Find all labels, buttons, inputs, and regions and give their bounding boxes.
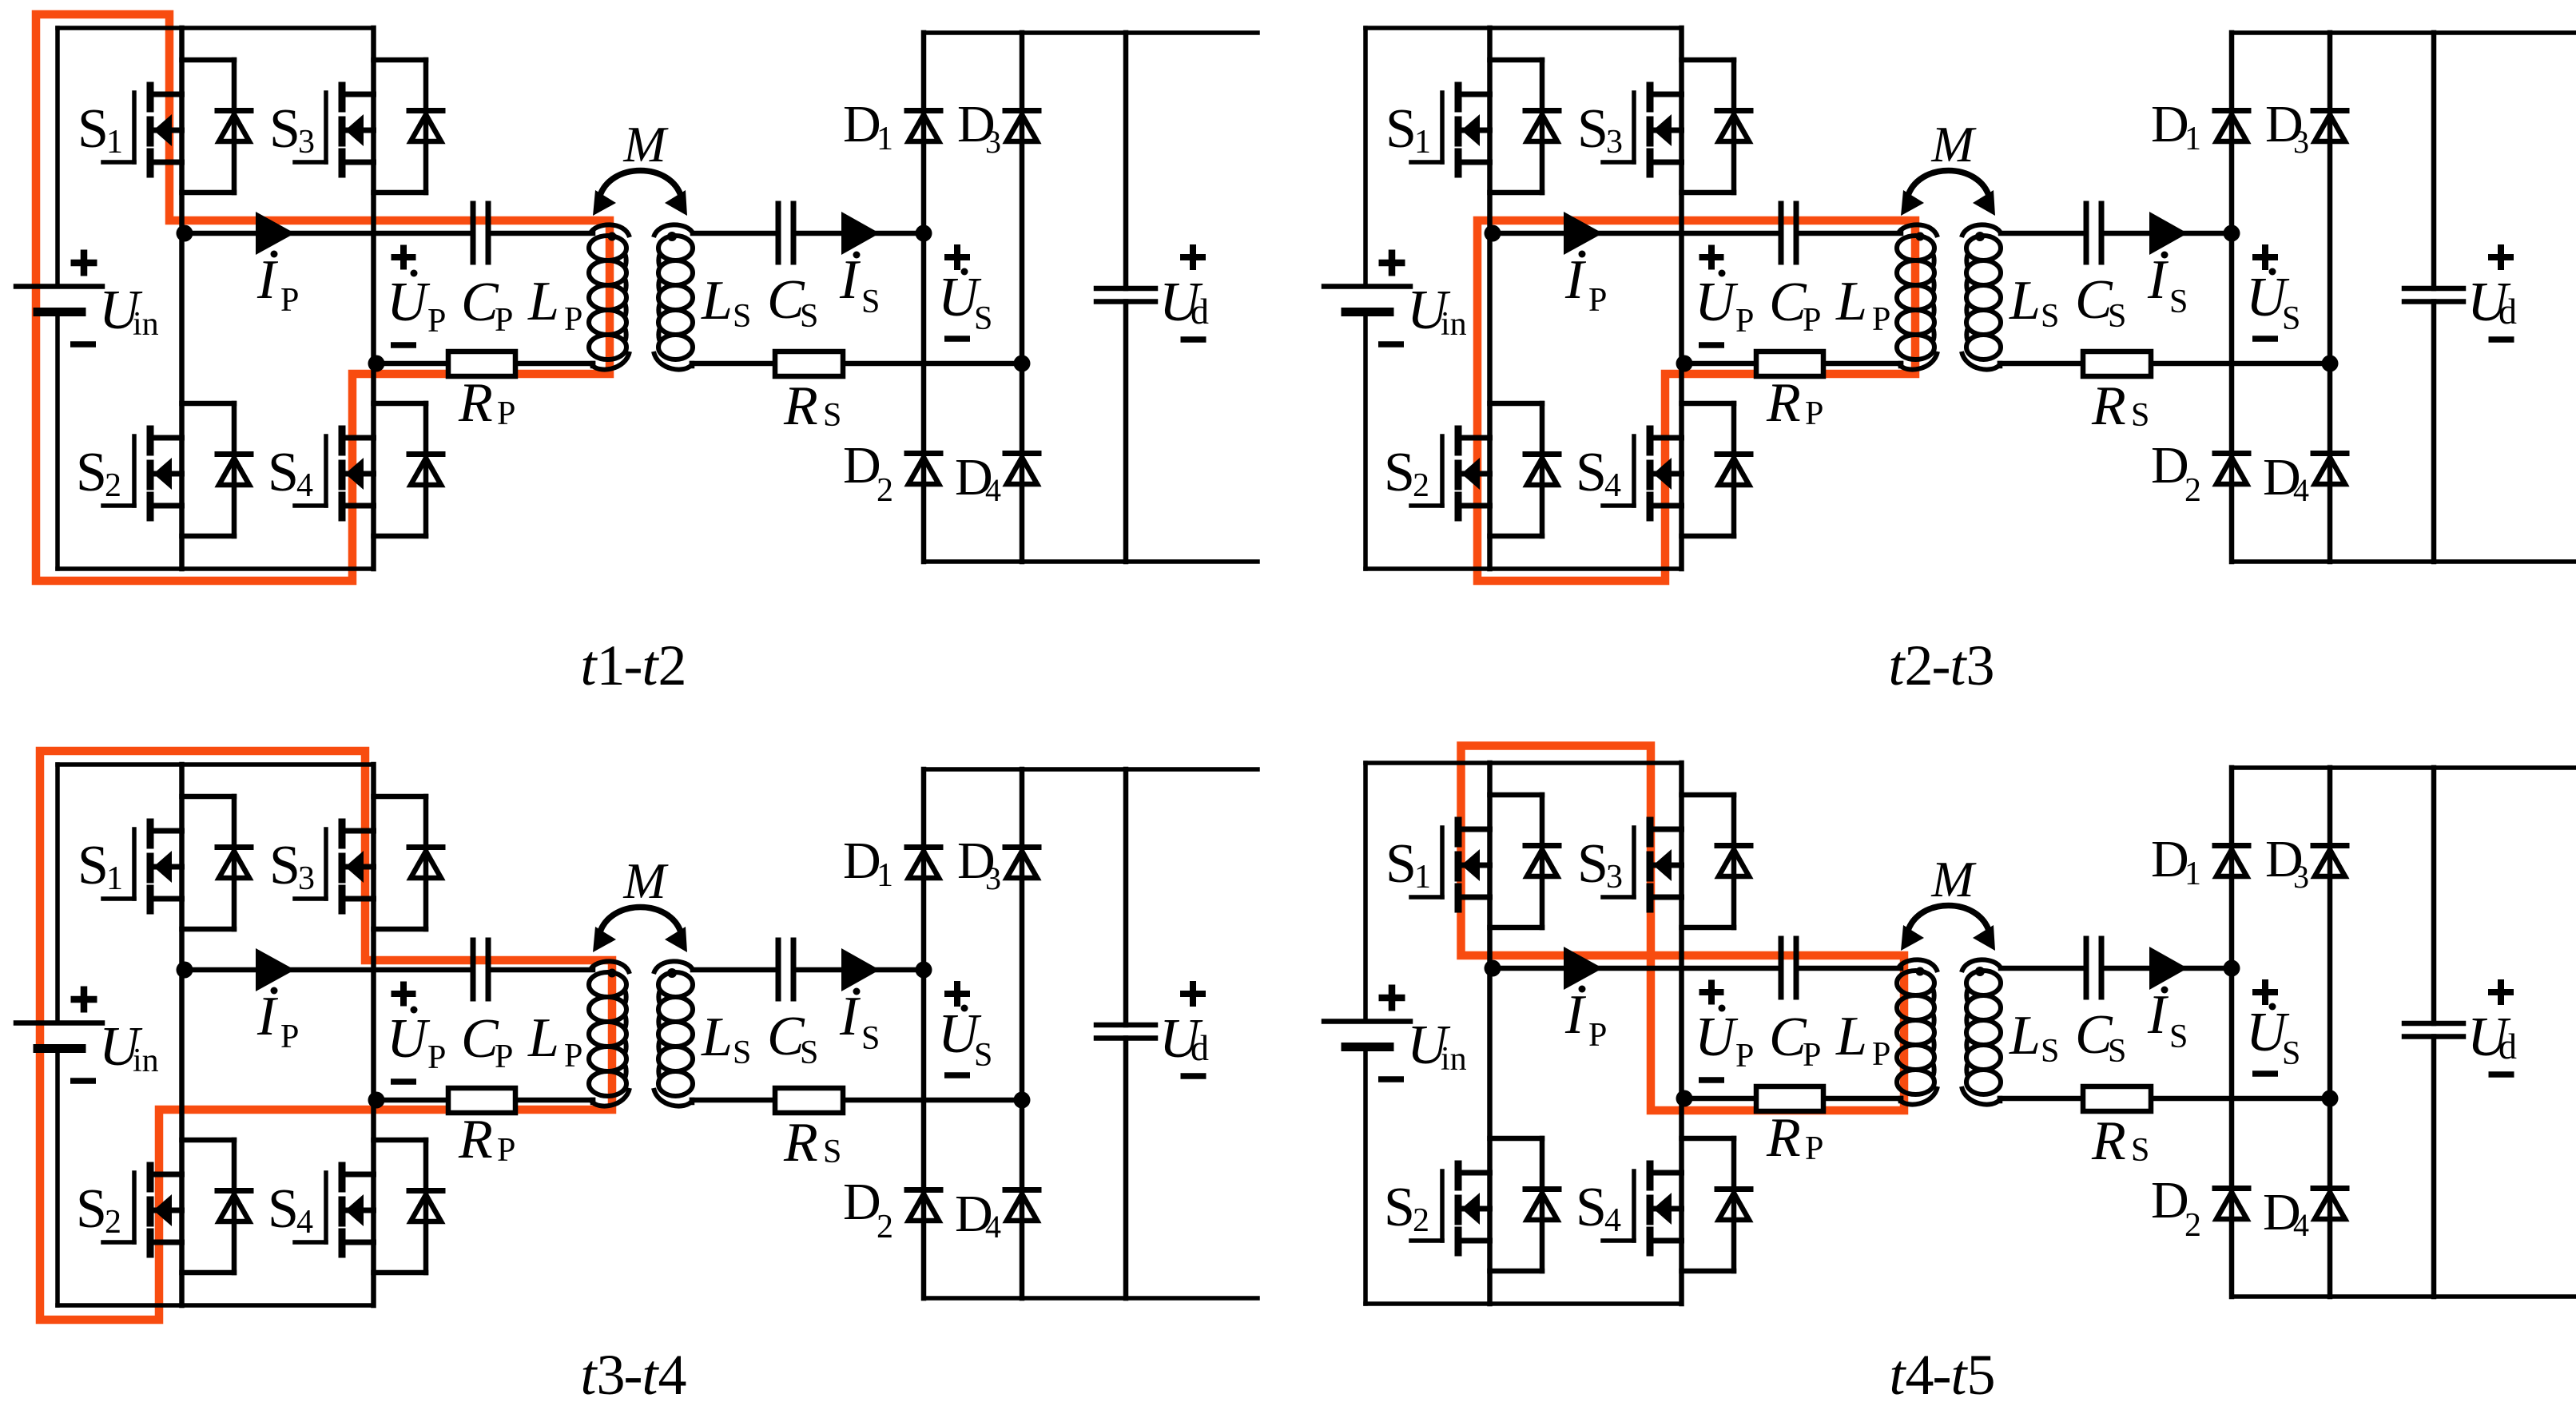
transistor S4 — [1603, 1164, 1682, 1253]
diode D3 — [1005, 848, 1039, 879]
body diode of S2 — [182, 403, 252, 536]
inductor Ls (secondary coil) — [654, 961, 693, 1106]
coupling arrow M — [593, 171, 687, 216]
wire right bridge leg (S3/S4) — [1679, 763, 1684, 1304]
wire Ls to Cs — [693, 231, 778, 236]
label Us — [938, 1003, 992, 1074]
capacitor Ud (output filter) — [2404, 1023, 2463, 1037]
svg-text:t: t — [1889, 634, 1906, 697]
label + of Us — [944, 244, 970, 270]
capacitor Cp — [473, 940, 488, 999]
label − of Ud — [1181, 1073, 1207, 1079]
wire Rs to rectifier leg — [843, 1098, 1022, 1103]
wire current-path highlight (orange loop) — [1461, 746, 1905, 1111]
label Uin — [99, 1016, 159, 1079]
label Up — [1695, 270, 1754, 340]
svg-text:3: 3 — [2293, 124, 2309, 160]
label − of Uin — [1378, 341, 1404, 348]
svg-text:2: 2 — [1905, 634, 1934, 697]
svg-text:I: I — [1564, 984, 1587, 1046]
capacitor Ud (output filter) — [1096, 288, 1155, 302]
label S2 — [76, 442, 121, 504]
label Rs — [783, 1112, 841, 1174]
svg-text:4: 4 — [296, 467, 313, 504]
wire rectifier bottom rail — [924, 1296, 1258, 1301]
label Rp — [458, 372, 515, 434]
svg-text:D: D — [2151, 1171, 2189, 1229]
diode D3 — [1005, 111, 1039, 142]
svg-text:P: P — [1735, 1038, 1754, 1074]
label − of Us — [2252, 336, 2278, 342]
svg-text:P: P — [1588, 1017, 1607, 1054]
svg-text:1: 1 — [106, 124, 123, 161]
polarity dot of Ls — [1975, 232, 1985, 241]
wire Rp to Lp bottom — [515, 1100, 593, 1102]
svg-text:P: P — [564, 301, 582, 338]
label + of Up — [392, 982, 416, 1007]
svg-text:2: 2 — [658, 634, 687, 697]
label t2-t3 — [1889, 634, 1995, 697]
wire bottom rail of inverter — [1366, 566, 1682, 571]
label Ip — [1564, 984, 1607, 1054]
capacitor Cs — [2086, 939, 2101, 997]
svg-text:R: R — [783, 375, 818, 437]
wire Ls to Cs — [2001, 966, 2086, 971]
label + of Up — [1699, 245, 1724, 270]
wire rectifier left leg (D1/D2) — [2229, 768, 2235, 1297]
svg-text:P: P — [564, 1038, 582, 1074]
svg-text:4: 4 — [296, 1204, 313, 1241]
svg-text:I: I — [256, 986, 279, 1047]
label Is — [2147, 984, 2188, 1055]
svg-text:S: S — [1577, 833, 1608, 895]
body diode of S4 — [374, 1140, 443, 1273]
label − of Ud — [2489, 1071, 2514, 1078]
label D3 — [2265, 95, 2309, 160]
node secondary bottom (rectifier input −) dot — [2322, 355, 2339, 372]
node b (S3-S4 junction) dot — [368, 1092, 385, 1109]
svg-text:S: S — [268, 442, 299, 503]
svg-text:S: S — [268, 1178, 299, 1240]
label + of Up — [392, 245, 416, 270]
wire capacitor leg lower — [1123, 1039, 1129, 1299]
wire current-path highlight (orange loop) — [40, 751, 612, 1320]
wire node a to Cp — [182, 231, 474, 236]
wire rectifier bottom rail — [2232, 1294, 2576, 1299]
wire rectifier right leg (D3/D4) — [2328, 33, 2333, 562]
svg-text:4: 4 — [1906, 1343, 1934, 1407]
resistor Rs — [2083, 1086, 2151, 1111]
svg-text:1: 1 — [1414, 859, 1431, 896]
node secondary top (rectifier input +) dot — [916, 962, 932, 979]
label − of Up — [1699, 342, 1724, 348]
inductor Ls (secondary coil) — [654, 224, 693, 369]
svg-text:I: I — [256, 249, 279, 311]
label M — [1930, 851, 1977, 908]
label + of Us — [944, 981, 970, 1007]
svg-text:S: S — [861, 284, 880, 320]
wire Cs to rectifier node — [793, 231, 924, 236]
body diode of S1 — [182, 796, 252, 929]
svg-text:2: 2 — [105, 1204, 121, 1241]
current arrow Is — [2149, 212, 2188, 255]
transistor S4 — [295, 1166, 374, 1254]
wire Rs to rectifier leg — [843, 361, 1022, 367]
battery Uin negative plate — [38, 1044, 81, 1053]
label Ip — [256, 986, 299, 1055]
svg-text:S: S — [269, 98, 300, 160]
body diode of S4 — [1682, 403, 1751, 536]
wire capacitor leg upper — [2431, 33, 2437, 288]
diode D2 — [2215, 1189, 2248, 1220]
svg-text:U: U — [1695, 272, 1739, 333]
label D2 — [2151, 1171, 2201, 1244]
diode D4 — [1005, 454, 1039, 485]
wire left bridge leg (S1/S2) — [1487, 763, 1493, 1304]
body diode of S3 — [374, 796, 443, 929]
svg-text:1: 1 — [877, 121, 893, 157]
svg-text:2: 2 — [2184, 1207, 2201, 1244]
label S4 — [1576, 1177, 1621, 1239]
resistor Rs — [775, 352, 843, 376]
diode D1 — [2215, 111, 2248, 142]
svg-text:S: S — [76, 442, 107, 503]
svg-text:C: C — [461, 1008, 499, 1070]
svg-text:R: R — [783, 1112, 818, 1174]
svg-text:t: t — [642, 634, 660, 697]
label + of Us — [2252, 979, 2278, 1005]
label Us — [938, 267, 992, 337]
polarity dot of Lp — [608, 969, 617, 978]
svg-text:1: 1 — [2184, 856, 2201, 892]
transistor S2 — [103, 429, 182, 518]
transistor S2 — [1411, 1164, 1490, 1253]
label Ud — [1159, 272, 1209, 333]
label Lp — [1835, 271, 1890, 338]
svg-text:U: U — [387, 1008, 431, 1070]
svg-text:R: R — [1766, 1107, 1801, 1169]
svg-text:S: S — [2108, 1033, 2126, 1070]
svg-text:S: S — [1577, 98, 1608, 160]
wire Ls bottom to Rs — [692, 363, 775, 366]
wire rectifier bottom rail — [924, 559, 1258, 564]
capacitor Cs — [2086, 204, 2101, 262]
transistor S3 — [1603, 85, 1682, 174]
label Uin — [1407, 280, 1467, 343]
polarity dot of Ls — [667, 968, 677, 978]
label − of Uin — [70, 1078, 96, 1084]
svg-text:2: 2 — [1413, 1202, 1429, 1239]
svg-text:S: S — [2282, 300, 2300, 337]
label − of Up — [1699, 1077, 1724, 1083]
svg-text:P: P — [1735, 303, 1754, 340]
diode D3 — [2313, 846, 2347, 877]
label D4 — [955, 1185, 1001, 1245]
inductor Ls (secondary coil) — [1962, 224, 2001, 369]
svg-text:U: U — [1695, 1007, 1739, 1068]
inductor Lp (primary coil) — [1897, 224, 1938, 369]
node secondary bottom (rectifier input −) dot — [1014, 355, 1031, 372]
wire Rp to Lp bottom — [1823, 1098, 1901, 1101]
wire top rail of inverter — [58, 762, 374, 767]
svg-text:t: t — [1890, 1343, 1907, 1407]
current arrow Ip — [256, 212, 295, 255]
wire rectifier top rail — [2232, 30, 2576, 35]
node secondary bottom (rectifier input −) dot — [1014, 1092, 1031, 1109]
wire capacitor leg upper — [2431, 768, 2437, 1023]
svg-text:P: P — [1805, 395, 1823, 432]
label M — [1930, 116, 1977, 173]
label Rp — [1766, 1107, 1823, 1169]
wire node a to Cp — [1490, 966, 1782, 971]
label Up — [1695, 1005, 1754, 1075]
wire left bridge leg (S1/S2) — [1487, 28, 1493, 569]
svg-text:d: d — [2498, 291, 2517, 332]
current arrow Ip — [256, 948, 295, 991]
label + of Uin — [71, 250, 97, 276]
label S4 — [1576, 442, 1621, 504]
label + of Uin — [1379, 250, 1405, 276]
label S4 — [268, 1178, 313, 1241]
label Rs — [2091, 375, 2149, 437]
label Is — [839, 986, 880, 1057]
svg-text:in: in — [133, 306, 159, 343]
label − of Ud — [1181, 336, 1207, 343]
svg-text:in: in — [1441, 1041, 1467, 1078]
svg-text:P: P — [427, 1039, 446, 1076]
svg-text:in: in — [1441, 306, 1467, 343]
label D3 — [957, 832, 1001, 896]
svg-text:5: 5 — [1967, 1343, 1996, 1407]
label Ud — [1159, 1008, 1209, 1070]
svg-text:D: D — [2151, 95, 2189, 153]
svg-text:U: U — [387, 272, 431, 333]
diode D2 — [2215, 454, 2248, 485]
capacitor Ud (output filter) — [1096, 1025, 1155, 1039]
label S3 — [1577, 98, 1623, 161]
svg-text:3: 3 — [985, 124, 1001, 160]
label Cs — [767, 269, 818, 335]
wire Rs to rectifier leg — [2151, 1096, 2330, 1102]
label S2 — [1384, 1177, 1429, 1239]
label S1 — [1385, 833, 1431, 896]
svg-text:t: t — [1951, 1343, 1969, 1407]
diode D3 — [2313, 111, 2347, 142]
transistor S1 — [1411, 820, 1490, 909]
battery Uin negative plate — [1346, 1043, 1389, 1051]
wire Cp to Lp — [1796, 966, 1901, 971]
wire rectifier right leg (D3/D4) — [2328, 768, 2333, 1297]
label M — [622, 852, 669, 909]
label S3 — [1577, 833, 1623, 896]
wire Cs to rectifier node — [2101, 966, 2232, 971]
label Rp — [1766, 372, 1823, 434]
svg-text:3: 3 — [1606, 859, 1623, 896]
body diode of S4 — [374, 403, 443, 536]
body diode of S2 — [1490, 1138, 1560, 1271]
label D4 — [2263, 448, 2309, 508]
label + of Ud — [1180, 244, 1206, 270]
inductor Ls (secondary coil) — [1962, 959, 2001, 1104]
current arrow Is — [841, 948, 880, 991]
svg-text:S: S — [2169, 284, 2188, 320]
svg-text:L: L — [1835, 271, 1867, 332]
label Ls — [701, 1007, 751, 1071]
svg-text:4: 4 — [985, 472, 1001, 508]
diode D1 — [907, 111, 940, 142]
capacitor Cs — [778, 940, 793, 999]
label D2 — [2151, 436, 2201, 509]
body diode of S1 — [1490, 795, 1560, 927]
wire top rail of inverter — [58, 26, 374, 30]
body diode of S3 — [1682, 60, 1751, 193]
svg-text:S: S — [269, 835, 300, 896]
svg-text:D: D — [843, 832, 881, 890]
polarity dot of Ls — [667, 232, 677, 241]
label S2 — [76, 1178, 121, 1241]
wire rectifier bottom rail — [2232, 559, 2576, 564]
inductor Lp (primary coil) — [589, 224, 630, 369]
svg-text:3: 3 — [298, 860, 315, 897]
diode D1 — [2215, 846, 2248, 877]
node a (S1-S2 junction) dot — [177, 225, 193, 242]
svg-text:-: - — [1933, 1343, 1952, 1407]
svg-text:S: S — [2282, 1035, 2300, 1072]
wire Cs to rectifier node — [2101, 231, 2232, 236]
wire rectifier top rail — [924, 767, 1258, 772]
svg-text:P: P — [497, 1132, 515, 1169]
diode D4 — [2313, 454, 2347, 485]
svg-text:P: P — [280, 282, 299, 319]
polarity dot of Lp — [1916, 967, 1925, 976]
label Uin — [99, 280, 159, 343]
label S3 — [269, 835, 315, 897]
wire capacitor leg lower — [2431, 302, 2437, 562]
resistor Rp — [1756, 1086, 1823, 1111]
svg-text:S: S — [1384, 442, 1415, 503]
svg-text:S: S — [78, 835, 109, 896]
wire Ls bottom to Rs — [2000, 363, 2083, 366]
wire Cs to rectifier node — [793, 967, 924, 973]
label D1 — [843, 832, 893, 894]
svg-text:S: S — [800, 298, 818, 335]
label Is — [839, 249, 880, 320]
label Up — [387, 270, 446, 340]
node secondary top (rectifier input +) dot — [2224, 960, 2240, 977]
wire rectifier right leg (D3/D4) — [1020, 769, 1025, 1298]
svg-text:I: I — [1564, 249, 1587, 311]
svg-text:3: 3 — [1606, 124, 1623, 161]
wire right bridge leg (S3/S4) — [371, 28, 376, 569]
label Us — [2246, 267, 2300, 337]
wire rectifier left leg (D1/D2) — [921, 769, 927, 1298]
svg-text:P: P — [427, 303, 446, 340]
polarity dot of Lp — [1916, 232, 1925, 241]
svg-text:M: M — [622, 852, 669, 909]
wire capacitor leg upper — [1123, 33, 1129, 288]
label Ls — [2009, 1005, 2059, 1070]
diode D4 — [2313, 1189, 2347, 1220]
svg-text:S: S — [2169, 1019, 2188, 1055]
label Rp — [458, 1109, 515, 1170]
label S1 — [1385, 98, 1431, 161]
transistor S4 — [1603, 429, 1682, 518]
svg-text:M: M — [1930, 851, 1977, 908]
wire node b to Rp — [374, 1098, 449, 1103]
label − of Uin — [70, 341, 96, 348]
svg-text:d: d — [1191, 1027, 1209, 1068]
transistor S4 — [295, 429, 374, 518]
svg-text:D: D — [843, 1173, 881, 1231]
svg-text:3: 3 — [597, 1343, 626, 1407]
svg-text:P: P — [1872, 1036, 1890, 1073]
capacitor Cp — [1781, 939, 1796, 997]
wire top rail of inverter — [1366, 26, 1682, 30]
svg-text:t: t — [1950, 634, 1968, 697]
svg-text:4: 4 — [1604, 467, 1621, 504]
svg-text:P: P — [1872, 301, 1890, 338]
coupling arrow M — [593, 908, 687, 953]
wire Cp to Lp — [488, 231, 593, 236]
wire node a to Cp — [182, 967, 474, 973]
wire right bridge leg (S3/S4) — [371, 765, 376, 1305]
svg-text:in: in — [133, 1043, 159, 1079]
label Ls — [701, 270, 751, 335]
svg-text:P: P — [1805, 1130, 1823, 1167]
wire rectifier left leg (D1/D2) — [2229, 33, 2235, 562]
label Cp — [1769, 272, 1821, 339]
svg-text:S: S — [800, 1035, 818, 1071]
svg-text:S: S — [2131, 397, 2149, 434]
svg-text:1: 1 — [106, 860, 123, 897]
label + of Ud — [1180, 981, 1206, 1007]
label Rs — [2091, 1110, 2149, 1172]
svg-text:S: S — [861, 1020, 880, 1057]
svg-text:t: t — [581, 634, 598, 697]
wire rectifier left leg (D1/D2) — [921, 33, 927, 562]
svg-text:P: P — [497, 395, 515, 432]
label t4-t5 — [1890, 1343, 1996, 1407]
wire Rp to Lp bottom — [515, 363, 593, 366]
diode D4 — [1005, 1190, 1039, 1221]
label S4 — [268, 442, 313, 504]
label Cp — [461, 1008, 513, 1075]
label Cs — [2075, 269, 2126, 335]
wire node b to Rp — [1682, 361, 1757, 367]
body diode of S4 — [1682, 1138, 1751, 1271]
svg-text:d: d — [1191, 291, 1209, 332]
wire Ls bottom to Rs — [692, 1100, 775, 1102]
svg-text:S: S — [1385, 98, 1417, 160]
svg-text:4: 4 — [2293, 472, 2309, 508]
svg-text:4: 4 — [658, 1343, 687, 1407]
label Lp — [1835, 1006, 1890, 1073]
node a (S1-S2 junction) dot — [1485, 960, 1501, 977]
svg-text:4: 4 — [985, 1209, 1001, 1245]
body diode of S3 — [1682, 795, 1751, 927]
svg-text:t: t — [581, 1343, 598, 1407]
polarity dot of Ls — [1975, 967, 1985, 976]
wire left rail lower segment — [1363, 1047, 1368, 1305]
svg-text:M: M — [1930, 116, 1977, 173]
svg-text:-: - — [1932, 634, 1951, 697]
label + of Ud — [2488, 979, 2514, 1005]
wire right bridge leg (S3/S4) — [1679, 28, 1684, 569]
wire bottom rail of inverter — [1366, 1301, 1682, 1306]
diode D2 — [907, 454, 940, 485]
label D4 — [2263, 1183, 2309, 1243]
svg-text:R: R — [458, 372, 493, 434]
